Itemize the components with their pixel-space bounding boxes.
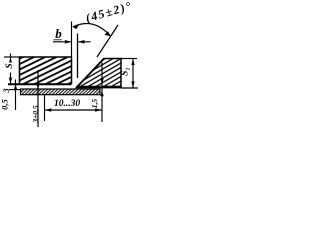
underline dash of label b bbox=[54, 39, 62, 41]
svg-text:S: S bbox=[5, 63, 15, 68]
extension line left of 10...30 bbox=[44, 94, 46, 121]
lower-left small dimension line bbox=[9, 80, 22, 111]
dimension S1 line bbox=[131, 59, 134, 89]
slanted extension line of bevel bbox=[97, 25, 118, 57]
svg-text:S₁: S₁ bbox=[121, 67, 131, 76]
svg-text:b: b bbox=[55, 26, 62, 41]
extension line right of 10...30 with up arrow bbox=[100, 63, 103, 123]
right plate top edge tick (for S1 dimension) bbox=[121, 58, 137, 60]
svg-text:3±0,5: 3±0,5 bbox=[31, 105, 40, 123]
svg-text:1,5: 1,5 bbox=[90, 99, 99, 109]
right plate with 45deg bevel bbox=[77, 59, 122, 88]
dimension S line bbox=[9, 54, 12, 85]
dimension 10...30 bbox=[45, 108, 103, 112]
top edge tick left of plate (for S dimension) bbox=[4, 56, 20, 58]
svg-text:10...30: 10...30 bbox=[54, 99, 80, 109]
angle arc bbox=[72, 23, 110, 36]
label S bbox=[5, 63, 15, 73]
extension line of left plate edge (vertical, for b and angle) bbox=[71, 22, 73, 58]
dimension b arrows bbox=[53, 40, 91, 44]
svg-text:0,5: 0,5 bbox=[0, 98, 9, 109]
left plate bbox=[8, 57, 72, 84]
extension line of right root edge (vertical, for b) bbox=[77, 34, 79, 79]
leader line with down arrow at plate bottom bbox=[36, 70, 39, 127]
right plate bottom edge tick (for S1 dimension) bbox=[121, 87, 138, 89]
svg-text:3: 3 bbox=[1, 88, 11, 94]
backing strip bbox=[21, 89, 101, 95]
